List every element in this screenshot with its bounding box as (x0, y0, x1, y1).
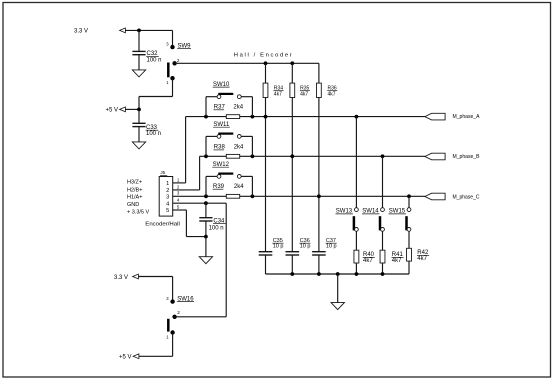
wire (206, 96, 217, 98)
svg-text:3: 3 (166, 195, 169, 201)
wire (251, 136, 253, 156)
svg-text:2: 2 (177, 184, 180, 189)
wire (408, 196, 410, 207)
svg-text:3: 3 (166, 41, 169, 46)
resistor R40 (354, 250, 359, 263)
switch SW16 pin 1 (170, 330, 174, 334)
svg-text:4k7: 4k7 (274, 91, 282, 97)
label SW9 (177, 43, 191, 49)
node junction C34 bottom (204, 235, 208, 239)
pin 4 number inside (166, 202, 169, 208)
port M_phase_A (425, 113, 445, 120)
svg-text:10 p: 10 p (300, 244, 311, 250)
switch SW15 contact bottom (407, 228, 411, 232)
net label 3.3V top (74, 29, 88, 35)
pin number 1 (166, 80, 169, 85)
pin 2 stub number (177, 184, 180, 189)
capacitor C32 (132, 51, 145, 54)
resistor R39 (226, 194, 239, 198)
switch SW14 contact bottom (381, 228, 385, 232)
switch SW11 bar (218, 133, 233, 135)
value 100 n (146, 131, 161, 137)
node junction (381, 272, 385, 276)
pin 5 stub number (177, 205, 180, 210)
svg-text:GND: GND (127, 202, 139, 208)
switch SW14 contact top (381, 208, 385, 212)
node junction +5V/C33 (137, 108, 141, 112)
svg-text:1: 1 (166, 80, 169, 85)
supply arrow 3.3V bottom (133, 274, 139, 279)
wire (241, 175, 252, 177)
resistor R37 (226, 115, 239, 119)
capacitor C35 (259, 252, 273, 255)
pin number 2 (177, 310, 180, 315)
svg-text:4k7: 4k7 (363, 258, 373, 264)
node junction (204, 194, 208, 198)
wire (408, 261, 410, 274)
node junction (381, 154, 385, 158)
wire (173, 182, 186, 184)
svg-text:2k4: 2k4 (233, 105, 243, 111)
node junction (290, 272, 294, 276)
label SW12 (212, 162, 229, 168)
node junction 3.3V/C32 (137, 29, 141, 33)
svg-text:2: 2 (166, 188, 169, 194)
label SW13 (336, 209, 353, 215)
ground (132, 142, 145, 149)
svg-text:10 p: 10 p (273, 244, 284, 250)
value 4k7 (274, 91, 282, 97)
svg-text:M_phase_B: M_phase_B (453, 154, 480, 160)
label J5 (160, 170, 167, 175)
capacitor C33 (132, 123, 145, 126)
wire (175, 316, 227, 318)
capacitor C34 (199, 218, 212, 221)
label C33 (146, 125, 159, 131)
value 2k4 (234, 145, 244, 151)
resistor R42 (407, 248, 412, 261)
wire (355, 231, 357, 250)
label Encoder/Hall (145, 221, 180, 227)
pin 1 number inside (166, 181, 169, 187)
value 4k7 (392, 258, 402, 264)
node junction (251, 194, 255, 198)
svg-text:H2/B+: H2/B+ (127, 187, 142, 193)
svg-text:4k7: 4k7 (417, 256, 427, 262)
wire (173, 209, 187, 211)
svg-text:5: 5 (166, 208, 169, 214)
wire (172, 78, 174, 96)
svg-text:H1/A+: H1/A+ (127, 195, 142, 201)
supply arrow 3.3V top (120, 28, 126, 33)
svg-text:100 n: 100 n (209, 226, 224, 232)
value 2k4 (233, 105, 243, 111)
wire (240, 195, 425, 197)
svg-text:4: 4 (166, 202, 169, 208)
wire (382, 231, 384, 250)
wire (205, 203, 207, 218)
switch SW10 contact left (217, 95, 221, 99)
switch SW12 bar (218, 173, 233, 175)
switch SW15 contact top (407, 208, 411, 212)
switch SW12 contact left (217, 175, 221, 179)
node junction (407, 194, 411, 198)
net label +5V bottom (119, 354, 132, 360)
node junction (317, 194, 321, 198)
pin label H1/A+ (127, 195, 142, 201)
wire (251, 97, 253, 117)
svg-text:4k7: 4k7 (328, 91, 336, 97)
wire (186, 236, 206, 238)
label C36 (299, 238, 310, 244)
wire (291, 98, 293, 252)
svg-text:+ 3.3/5 V: + 3.3/5 V (127, 209, 150, 215)
switch SW10 bar (218, 93, 233, 95)
wire (175, 62, 319, 64)
resistor R41 (380, 250, 385, 263)
node junction (336, 272, 340, 276)
switch SW9 pin 2 (172, 61, 176, 65)
resistor R34 (263, 83, 268, 97)
pin 3 stub number (177, 191, 180, 196)
net label M_phase_C (453, 194, 480, 200)
switch SW11 contact right (237, 135, 241, 139)
pin number 3 (166, 41, 169, 46)
pin number 3 (166, 296, 169, 301)
wire (241, 135, 252, 137)
wire (382, 263, 384, 274)
svg-text:Hall / Encoder: Hall / Encoder (234, 52, 294, 58)
svg-text:2: 2 (177, 58, 180, 63)
ground (132, 70, 145, 77)
wire (205, 97, 207, 117)
svg-text:4k7: 4k7 (300, 91, 308, 97)
node junction C34 top (204, 201, 208, 205)
node junction (317, 272, 321, 276)
svg-text:10 p: 10 p (326, 244, 337, 250)
resistor R36 (317, 83, 322, 97)
node junction (251, 115, 255, 119)
switch SW11 contact left (217, 135, 221, 139)
svg-text:3: 3 (177, 191, 180, 196)
switch SW16 bar (167, 319, 170, 332)
svg-text:J5: J5 (160, 170, 165, 175)
capacitor C36 (286, 252, 300, 255)
connector J5 (159, 177, 173, 217)
label R40 (363, 252, 375, 258)
wire (186, 116, 227, 118)
label C34 (213, 218, 226, 224)
svg-text:3.3 V: 3.3 V (114, 275, 128, 281)
wire (240, 155, 425, 157)
wire (205, 237, 207, 257)
wire (172, 277, 174, 302)
svg-text:4k7: 4k7 (392, 258, 402, 264)
resistor R38 (226, 154, 239, 158)
value 2k4 (234, 184, 244, 190)
wire (138, 127, 140, 142)
wire (225, 203, 227, 317)
supply arrow +5V top (120, 107, 126, 112)
node junction R35 top (290, 61, 294, 65)
ground (199, 257, 212, 264)
svg-text:M_phase_A: M_phase_A (453, 114, 480, 120)
svg-text:1: 1 (166, 335, 169, 340)
wire (199, 156, 201, 190)
node junction (251, 154, 255, 158)
net label M_phase_B (453, 154, 480, 160)
wire (408, 231, 410, 248)
svg-text:Encoder/Hall: Encoder/Hall (145, 221, 180, 227)
pin 2 number inside (166, 188, 169, 194)
svg-text:+5 V: +5 V (119, 354, 132, 360)
pin 5 number inside (166, 208, 169, 214)
wire (138, 276, 172, 278)
pin 4 stub number (177, 198, 180, 203)
supply arrow +5V bottom (133, 354, 139, 359)
label SW14 (362, 209, 379, 215)
net label 3.3V bottom (114, 275, 128, 281)
value 10 p (300, 244, 311, 250)
label R34 (274, 85, 284, 91)
wire (266, 273, 410, 275)
label R42 (417, 250, 429, 256)
switch SW12 contact right (237, 175, 241, 179)
title Hall / Encoder (234, 52, 294, 58)
pin 1 stub number (177, 177, 180, 182)
label SW15 (389, 209, 406, 215)
pin label GND (127, 202, 139, 208)
wire (206, 175, 217, 177)
label C35 (272, 238, 283, 244)
wire (251, 176, 253, 196)
node junction (264, 115, 268, 119)
wire (173, 195, 227, 197)
wire (139, 96, 173, 98)
label R39 (213, 184, 225, 190)
svg-text:100 n: 100 n (147, 57, 162, 63)
wire (173, 189, 200, 191)
wire (172, 333, 174, 357)
value 4k7 (417, 256, 427, 262)
label C37 (326, 238, 337, 244)
wire (185, 117, 187, 183)
wire (205, 221, 207, 237)
svg-text:3: 3 (166, 296, 169, 301)
switch SW16 pin 3 (170, 299, 174, 303)
pin number 2 (177, 58, 180, 63)
wire (291, 63, 293, 83)
wire (125, 108, 139, 110)
node junction (355, 272, 359, 276)
net label M_phase_A (453, 114, 480, 120)
node junction (290, 154, 294, 158)
pin 3 number inside (166, 195, 169, 201)
wire (205, 136, 207, 156)
label R38 (214, 145, 226, 151)
pin label H3/Z+ (127, 179, 142, 185)
wire (138, 355, 172, 357)
label SW11 (213, 122, 230, 128)
value 10 p (273, 244, 284, 250)
wire (206, 135, 217, 137)
wire (265, 98, 267, 252)
wire (200, 155, 227, 157)
port M_phase_C (425, 193, 445, 200)
label C32 (146, 51, 159, 57)
wire (138, 55, 140, 70)
svg-text:100 n: 100 n (146, 131, 161, 137)
svg-text:+5 V: +5 V (106, 108, 119, 114)
resistor R35 (290, 83, 295, 97)
svg-text:3.3 V: 3.3 V (74, 29, 88, 35)
wire (318, 255, 320, 274)
node junction (204, 154, 208, 158)
wire (265, 63, 267, 83)
switch SW9 bar (167, 63, 170, 78)
value 100 n (209, 226, 224, 232)
port M_phase_B (425, 153, 445, 160)
svg-text:5: 5 (177, 205, 180, 210)
svg-text:2: 2 (177, 310, 180, 315)
switch SW13 bar (353, 216, 356, 230)
svg-text:H3/Z+: H3/Z+ (127, 179, 142, 185)
svg-text:2k4: 2k4 (234, 184, 244, 190)
label SW10 (213, 82, 230, 88)
wire (125, 29, 172, 31)
wire (138, 97, 140, 110)
wire (355, 117, 357, 208)
wire (173, 202, 227, 204)
wire (355, 263, 357, 274)
switch SW15 bar (405, 216, 408, 230)
switch SW9 pin 3 (170, 45, 174, 49)
pin label H2/B+ (127, 187, 142, 193)
label SW16 (177, 296, 194, 302)
wire (185, 210, 187, 237)
wire (205, 176, 207, 196)
ground (331, 303, 344, 310)
switch SW14 bar (379, 216, 382, 230)
wire (241, 96, 252, 98)
label R36 (327, 85, 337, 91)
wire (240, 116, 425, 118)
label R37 (214, 105, 226, 111)
node junction (204, 115, 208, 119)
switch SW13 contact top (355, 208, 359, 212)
wire (291, 255, 293, 274)
svg-text:2k4: 2k4 (234, 145, 244, 151)
label R35 (300, 85, 310, 91)
svg-text:M_phase_C: M_phase_C (453, 194, 480, 200)
svg-text:1: 1 (166, 181, 169, 187)
wire (318, 63, 320, 83)
value 10 p (326, 244, 337, 250)
wire (337, 274, 339, 303)
wire (138, 30, 140, 51)
label R41 (392, 252, 404, 258)
switch SW13 contact bottom (355, 228, 359, 232)
pin label + 3.3/5 V (127, 209, 150, 215)
wire (265, 255, 267, 274)
node junction (355, 115, 359, 119)
value 4k7 (328, 91, 336, 97)
value 4k7 (363, 258, 373, 264)
svg-text:4: 4 (177, 198, 180, 203)
wire (318, 98, 320, 252)
capacitor C37 (312, 252, 326, 255)
value 4k7 (300, 91, 308, 97)
wire (138, 109, 140, 123)
switch SW10 contact right (237, 95, 241, 99)
pin number 1 (166, 335, 169, 340)
svg-text:1: 1 (177, 177, 180, 182)
switch SW16 pin 2 (172, 315, 176, 319)
value 100 n (147, 57, 162, 63)
wire (382, 156, 384, 207)
wire (172, 30, 174, 47)
node junction R34 top (264, 61, 268, 65)
net label +5V top (106, 108, 119, 114)
switch SW9 pin 1 (170, 76, 174, 80)
